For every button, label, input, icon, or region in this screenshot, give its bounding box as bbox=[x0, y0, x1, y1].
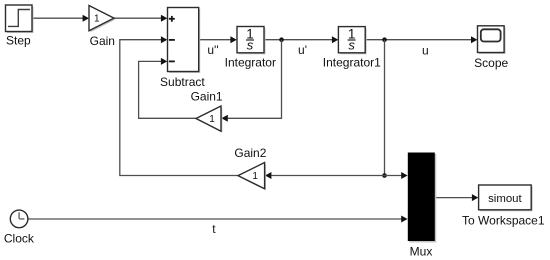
wire feedback from node u' down to Gain1 input bbox=[221, 40, 281, 122]
svg-text:t: t bbox=[212, 222, 216, 236]
wire Gain to Subtract input 1 bbox=[114, 15, 167, 22]
svg-text:1: 1 bbox=[252, 171, 258, 182]
junction dot after Integrator bbox=[279, 37, 284, 42]
gain G (Gain) bbox=[89, 6, 115, 33]
wire Step to Gain bbox=[33, 15, 90, 22]
svg-text:Gain1: Gain1 bbox=[191, 90, 223, 104]
gain G2 (Gain2) bbox=[238, 163, 266, 191]
wire Integrator1 to Scope, node u bbox=[365, 36, 477, 43]
svg-text:Integrator: Integrator bbox=[225, 55, 276, 69]
svg-text:Integrator1: Integrator1 bbox=[323, 55, 381, 69]
block Subtract bbox=[168, 8, 201, 74]
block To Workspace1 (simout) bbox=[479, 185, 533, 211]
svg-text:Mux: Mux bbox=[410, 245, 433, 259]
block Scope bbox=[478, 26, 506, 54]
svg-text:s: s bbox=[348, 38, 355, 53]
wire Integrator to Integrator1, node u' bbox=[264, 36, 338, 43]
wire Subtract to Integrator, node u'' bbox=[199, 36, 237, 43]
wire Clock to Mux input 2, node t bbox=[28, 216, 408, 223]
wire branch to Gain2 input bbox=[265, 172, 385, 179]
svg-text:Clock: Clock bbox=[4, 231, 35, 245]
svg-text:Gain: Gain bbox=[90, 34, 115, 48]
svg-text:u'': u'' bbox=[207, 43, 218, 57]
junction dot u branch bbox=[382, 173, 387, 178]
svg-text:1: 1 bbox=[94, 14, 100, 25]
wire node u down to branch junction bbox=[384, 40, 386, 176]
svg-text:Step: Step bbox=[6, 33, 31, 47]
svg-text:Subtract: Subtract bbox=[160, 75, 205, 89]
gain G1 (Gain1) bbox=[196, 106, 222, 133]
svg-text:Gain2: Gain2 bbox=[234, 146, 266, 160]
wire Gain1 output to Subtract input 3 bbox=[139, 58, 196, 118]
svg-text:u: u bbox=[422, 44, 429, 58]
junction dot after Integrator1 bbox=[382, 37, 387, 42]
block Clock bbox=[10, 210, 28, 228]
wire branch to Mux input 1 bbox=[385, 172, 408, 179]
block Integrator1 U2 bbox=[338, 27, 366, 55]
svg-text:u': u' bbox=[298, 43, 307, 57]
block Integrator U1 bbox=[237, 27, 266, 55]
wire Mux to To Workspace1 bbox=[435, 194, 478, 201]
svg-text:s: s bbox=[247, 38, 254, 53]
svg-text:Scope: Scope bbox=[474, 56, 508, 70]
svg-text:simout: simout bbox=[488, 193, 522, 205]
svg-text:To Workspace1: To Workspace1 bbox=[462, 214, 545, 228]
block Mux bbox=[408, 153, 437, 243]
block Step bbox=[6, 5, 34, 33]
wire Gain2 output to Subtract input 2 bbox=[120, 36, 238, 175]
svg-text:1: 1 bbox=[209, 114, 215, 125]
